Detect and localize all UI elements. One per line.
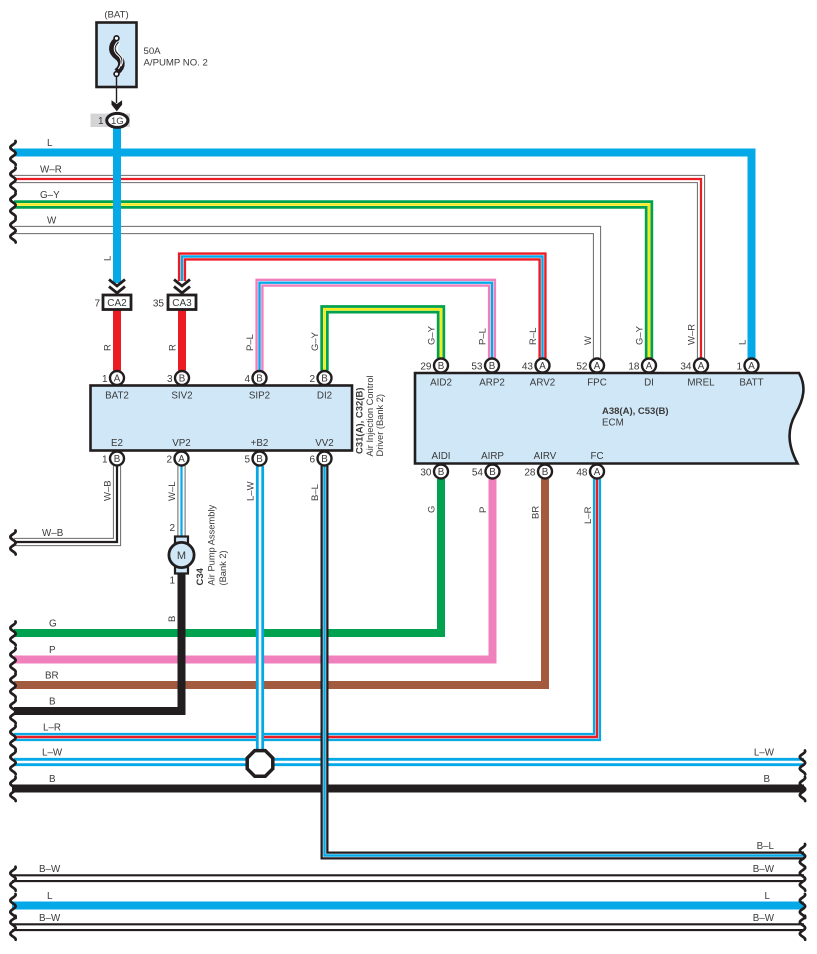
svg-text:MREL: MREL	[687, 378, 715, 389]
svg-text:53: 53	[471, 361, 483, 372]
svg-text:VV2: VV2	[315, 438, 334, 449]
svg-text:B–W: B–W	[39, 913, 61, 924]
svg-text:A: A	[114, 374, 121, 385]
svg-text:29: 29	[420, 361, 432, 372]
svg-text:P: P	[478, 507, 489, 513]
svg-text:4: 4	[244, 374, 250, 385]
svg-text:BATT: BATT	[739, 378, 763, 389]
svg-text:5: 5	[244, 454, 250, 465]
svg-text:BAT2: BAT2	[105, 391, 129, 402]
svg-text:A: A	[594, 467, 601, 478]
svg-text:G: G	[49, 619, 57, 630]
svg-text:M: M	[177, 550, 186, 562]
svg-text:CA3: CA3	[172, 298, 192, 309]
svg-text:(Bank 2): (Bank 2)	[218, 550, 228, 585]
svg-text:34: 34	[680, 361, 692, 372]
svg-text:B: B	[256, 454, 263, 465]
svg-text:SIP2: SIP2	[249, 391, 270, 402]
svg-text:R–L: R–L	[528, 328, 539, 345]
svg-text:A/PUMP NO. 2: A/PUMP NO. 2	[144, 58, 208, 69]
svg-text:ARP2: ARP2	[479, 378, 505, 389]
svg-text:W–R: W–R	[687, 324, 698, 345]
svg-text:DI2: DI2	[317, 391, 332, 402]
svg-text:W–R: W–R	[40, 165, 62, 176]
svg-text:B–L: B–L	[757, 841, 775, 852]
svg-text:1: 1	[98, 116, 104, 127]
svg-text:DI: DI	[644, 378, 654, 389]
svg-text:G–Y: G–Y	[427, 325, 438, 345]
svg-text:43: 43	[522, 361, 534, 372]
svg-text:50A: 50A	[144, 46, 162, 57]
svg-text:B–L: B–L	[310, 484, 321, 501]
svg-text:VP2: VP2	[172, 438, 191, 449]
svg-text:L–W: L–W	[42, 748, 63, 759]
svg-text:B: B	[321, 374, 328, 385]
svg-text:1: 1	[102, 374, 108, 385]
svg-text:A: A	[646, 361, 653, 372]
svg-text:G: G	[427, 506, 438, 513]
svg-text:L–W: L–W	[754, 748, 775, 759]
svg-text:A: A	[594, 361, 601, 372]
svg-text:B: B	[763, 774, 770, 785]
svg-text:52: 52	[576, 361, 588, 372]
svg-text:2: 2	[309, 374, 315, 385]
svg-text:B: B	[542, 467, 549, 478]
svg-text:W–B: W–B	[42, 528, 64, 539]
svg-text:AIRP: AIRP	[481, 451, 504, 462]
svg-text:3: 3	[167, 374, 173, 385]
svg-text:B–W: B–W	[753, 913, 775, 924]
svg-text:L: L	[765, 891, 771, 902]
svg-text:Air Injection Control: Air Injection Control	[365, 375, 375, 456]
svg-text:B–W: B–W	[39, 864, 61, 875]
svg-text:L: L	[47, 138, 53, 149]
svg-text:A: A	[539, 361, 546, 372]
svg-text:W–B: W–B	[103, 480, 114, 501]
svg-text:CA2: CA2	[107, 298, 127, 309]
svg-text:54: 54	[472, 467, 484, 478]
svg-text:ARV2: ARV2	[530, 378, 555, 389]
svg-text:FC: FC	[590, 451, 603, 462]
svg-text:L: L	[47, 891, 53, 902]
svg-text:6: 6	[309, 454, 315, 465]
svg-text:P: P	[49, 645, 56, 656]
svg-text:ECM: ECM	[602, 418, 624, 429]
svg-text:R: R	[168, 344, 179, 351]
svg-text:AIRV: AIRV	[534, 451, 557, 462]
svg-text:18: 18	[628, 361, 640, 372]
svg-text:B: B	[49, 774, 56, 785]
svg-text:L–R: L–R	[43, 723, 61, 734]
svg-text:G–Y: G–Y	[40, 190, 60, 201]
svg-text:28: 28	[524, 467, 536, 478]
svg-text:SIV2: SIV2	[171, 391, 192, 402]
svg-text:B: B	[438, 361, 445, 372]
svg-text:G–Y: G–Y	[635, 325, 646, 345]
svg-text:B: B	[489, 361, 496, 372]
svg-text:BR: BR	[531, 506, 542, 519]
svg-text:A: A	[748, 361, 755, 372]
svg-text:W–L: W–L	[167, 481, 178, 501]
svg-text:35: 35	[153, 299, 165, 310]
svg-text:L–R: L–R	[583, 506, 594, 524]
svg-text:P–L: P–L	[478, 328, 489, 345]
svg-text:B: B	[256, 374, 263, 385]
svg-text:2: 2	[169, 523, 175, 534]
svg-text:(BAT): (BAT)	[104, 10, 128, 21]
svg-text:L: L	[738, 340, 749, 345]
svg-text:48: 48	[576, 467, 588, 478]
svg-text:E2: E2	[111, 438, 123, 449]
svg-text:P–L: P–L	[245, 334, 256, 351]
svg-text:R: R	[103, 344, 114, 351]
svg-text:BR: BR	[45, 671, 59, 682]
svg-text:C34: C34	[195, 567, 206, 585]
svg-text:Driver (Bank 2): Driver (Bank 2)	[375, 394, 385, 457]
svg-text:2: 2	[166, 454, 172, 465]
svg-text:1G: 1G	[111, 116, 124, 127]
svg-text:Air Pump Assembly: Air Pump Assembly	[207, 505, 217, 586]
svg-text:B: B	[179, 374, 186, 385]
svg-text:W: W	[47, 216, 57, 227]
svg-text:B–W: B–W	[753, 864, 775, 875]
svg-text:B: B	[489, 467, 496, 478]
svg-text:B: B	[49, 697, 56, 708]
svg-text:FPC: FPC	[587, 378, 607, 389]
svg-text:1: 1	[169, 576, 175, 587]
svg-text:+B2: +B2	[251, 438, 269, 449]
svg-text:B: B	[114, 454, 121, 465]
svg-text:B: B	[321, 454, 328, 465]
svg-text:L: L	[103, 256, 114, 261]
svg-text:A: A	[698, 361, 705, 372]
svg-text:L–W: L–W	[246, 481, 257, 501]
svg-text:AIDI: AIDI	[431, 451, 450, 462]
svg-text:B: B	[167, 616, 178, 622]
svg-text:G–Y: G–Y	[310, 331, 321, 351]
svg-text:A38(A), C53(B): A38(A), C53(B)	[602, 406, 669, 417]
svg-text:W: W	[583, 336, 594, 345]
svg-text:7: 7	[94, 299, 100, 310]
svg-text:A: A	[178, 454, 185, 465]
svg-text:1: 1	[736, 361, 742, 372]
svg-text:30: 30	[420, 467, 432, 478]
svg-text:AID2: AID2	[430, 378, 452, 389]
svg-text:B: B	[438, 467, 445, 478]
svg-text:1: 1	[102, 454, 108, 465]
